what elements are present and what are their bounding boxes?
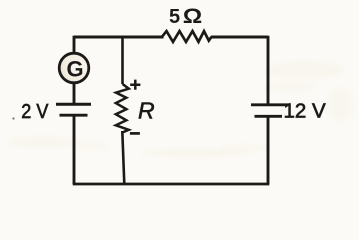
resistor R (vertical zigzag) bbox=[116, 84, 129, 133]
svg-text:5: 5 bbox=[169, 6, 180, 28]
wire left branch lower bbox=[73, 116, 76, 184]
wire right branch lower bbox=[267, 117, 270, 184]
wire middle branch lower bbox=[122, 131, 124, 184]
resistor R2 5 ohm (horizontal zigzag) bbox=[162, 31, 212, 42]
svg-text:2 V: 2 V bbox=[21, 101, 48, 123]
label + bbox=[130, 80, 140, 90]
wire top (resistor right lead to top-right corner) bbox=[211, 36, 268, 39]
battery B2 12V bbox=[251, 105, 288, 117]
wire left branch upper bbox=[73, 36, 76, 53]
label minus bbox=[130, 132, 140, 135]
svg-text:G: G bbox=[66, 56, 83, 81]
wire middle branch upper bbox=[121, 36, 124, 84]
speck (scan dot) bbox=[12, 117, 14, 119]
wire top (middle node to resistor left lead) bbox=[123, 36, 164, 39]
galvanometer G bbox=[59, 53, 89, 83]
wire top-left horizontal (left node to middle node) bbox=[74, 36, 123, 39]
wire right branch upper bbox=[267, 36, 270, 104]
svg-text:Ω: Ω bbox=[183, 3, 202, 27]
wire bottom bbox=[73, 183, 270, 186]
svg-text:R: R bbox=[138, 98, 155, 124]
battery B1 2V bbox=[56, 104, 91, 115]
wire left branch (galvanometer to battery) bbox=[73, 83, 76, 103]
svg-text:12 V: 12 V bbox=[284, 100, 326, 123]
